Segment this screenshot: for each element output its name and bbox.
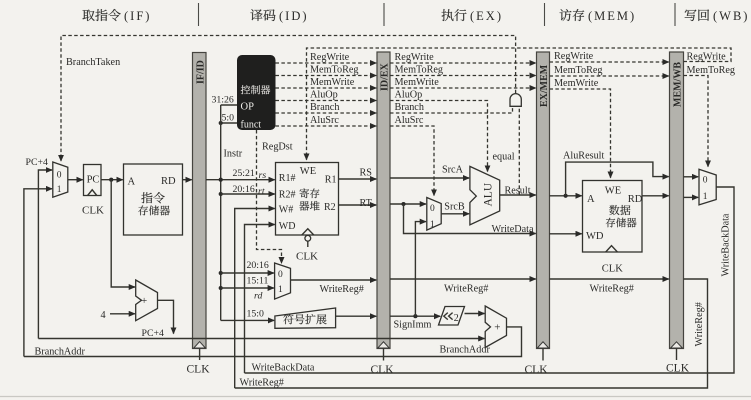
svg-text:0: 0 (57, 170, 62, 180)
svg-text:RS: RS (360, 168, 373, 179)
junction PC out (109, 178, 113, 182)
wire RT into SrcB mux 0 (390, 203, 426, 205)
register file (276, 163, 339, 263)
svg-text:RegWrite: RegWrite (687, 52, 727, 63)
stage header IF (82, 9, 151, 23)
svg-text:CLK: CLK (296, 251, 318, 263)
svg-text:(MEM): (MEM) (588, 9, 636, 23)
svg-text:1: 1 (703, 192, 708, 202)
wire RegWrite return to register file WE (307, 48, 732, 160)
svg-text:BranchAddr: BranchAddr (35, 347, 86, 358)
wire WriteReg# writeback return (235, 279, 708, 388)
wire WriteBackData return to WD (245, 225, 275, 374)
svg-text:WriteReg#: WriteReg# (240, 377, 284, 388)
svg-text:WE: WE (605, 185, 621, 196)
svg-text:MemToReg: MemToReg (310, 65, 359, 76)
junction RT/WriteData (401, 202, 405, 206)
svg-text:WD: WD (586, 231, 604, 242)
svg-text:IF/ID: IF/ID (196, 60, 207, 84)
wire AluResult bypass to MEM/WB (563, 150, 669, 196)
wire mux to PC (68, 179, 83, 181)
svg-text:31:26: 31:26 (212, 94, 234, 105)
svg-text:R2: R2 (324, 202, 336, 213)
wire MemWrite (ID stage) (276, 77, 377, 88)
wire RegWrite (ID stage) (276, 52, 377, 63)
wire Instr vertical tap (220, 105, 222, 320)
svg-text:W#: W# (279, 204, 293, 215)
wire SignImm into SrcB mux 1 (415, 222, 426, 317)
svg-text:(WB): (WB) (713, 9, 749, 23)
wire BranchAddr bottom line (24, 327, 522, 358)
wire RegWrite (EX stage) (390, 52, 536, 63)
wire 5:0 into control funct (221, 112, 237, 123)
wire AluResult into WB mux 0 (684, 176, 699, 178)
data memory (583, 181, 643, 275)
label 20:16 rt (233, 184, 265, 197)
svg-text:RegWrite: RegWrite (310, 52, 350, 63)
control unit (237, 55, 276, 131)
constant 4 into adder (101, 310, 135, 321)
wire 31:26 into control OP (212, 94, 238, 105)
svg-text:15:11: 15:11 (247, 276, 269, 287)
svg-text:A: A (587, 194, 595, 205)
wire BranchAddr into mux 1 (24, 189, 52, 357)
svg-text:BranchAddr: BranchAddr (440, 345, 491, 356)
svg-text:CLK: CLK (525, 364, 549, 376)
instruction memory (124, 164, 183, 235)
svg-text:AluSrc: AluSrc (310, 115, 339, 126)
svg-text:25:21: 25:21 (233, 168, 255, 179)
pipeline register MEM/WB (666, 52, 690, 375)
wire R1 RS to ID/EX (339, 168, 377, 180)
wire PC to instruction memory (101, 179, 123, 181)
wire SignImm to ID/EX (336, 315, 377, 317)
wire R2 RT to ID/EX (339, 198, 377, 209)
wire equal (493, 107, 520, 195)
svg-text:CLK: CLK (371, 364, 395, 376)
svg-text:WriteReg#: WriteReg# (444, 284, 488, 295)
wire 20:16 rt to R2# (221, 193, 275, 195)
mux WriteReg# select (275, 263, 291, 299)
svg-text:5:0: 5:0 (222, 112, 235, 123)
wire WriteReg# EX to EX/MEM (390, 279, 536, 295)
AND gate branch (510, 94, 521, 107)
wire MemWrite into data memory WE (550, 78, 611, 178)
op-amp ALU (470, 166, 500, 224)
pipeline register EX/MEM (525, 52, 551, 376)
page bottom rule (0, 396, 751, 398)
svg-text:SrcA: SrcA (442, 164, 464, 175)
wire AluResult to data memory A (550, 195, 582, 197)
svg-text:A: A (128, 176, 136, 187)
svg-text:2: 2 (454, 313, 459, 324)
wire 15:0 to sign extend (221, 309, 274, 321)
label 25:21 rs (233, 168, 267, 181)
svg-text:WriteReg#: WriteReg# (694, 302, 705, 346)
junction AluResult (564, 194, 568, 198)
wire AluOp (ID stage) (276, 90, 377, 101)
wire 15:11 rd to WriteReg mux 1 (221, 276, 274, 302)
shifter <<2 (439, 307, 465, 326)
junction SignImm tap (413, 314, 417, 318)
svg-text:1: 1 (278, 285, 283, 295)
svg-text:WriteBackData: WriteBackData (721, 213, 732, 276)
adder PC+4 (136, 280, 158, 321)
svg-text:+: + (494, 322, 500, 334)
sign extend unit (275, 308, 336, 328)
svg-text:AluSrc: AluSrc (395, 115, 424, 126)
svg-text:ALU: ALU (483, 182, 495, 206)
svg-text:equal: equal (493, 152, 515, 163)
svg-text:(EX): (EX) (470, 9, 503, 23)
svg-text:R1#: R1# (279, 173, 296, 184)
pipeline register ID/EX (371, 52, 395, 376)
wire shifted imm into branch adder (465, 313, 485, 315)
svg-text:WriteBackData: WriteBackData (252, 362, 315, 373)
svg-text:CLK: CLK (187, 364, 211, 376)
svg-text:WD: WD (279, 221, 296, 232)
svg-text:rt: rt (258, 186, 265, 197)
header divider 2 (383, 3, 385, 26)
svg-text:MEM/WB: MEM/WB (673, 62, 684, 107)
svg-text:rd: rd (254, 291, 262, 302)
wire MemToReg (MEM stage) (550, 65, 669, 76)
svg-text:Branch: Branch (310, 102, 339, 113)
wire PC+4 main line to branch adder (38, 338, 484, 340)
svg-text:funct: funct (241, 120, 262, 131)
svg-text:PC: PC (87, 175, 100, 186)
wire RegDst into WriteReg mux (257, 130, 293, 263)
wire MemWrite (EX stage) (390, 77, 536, 88)
wire PC to adder (111, 180, 135, 287)
wire read data into WB mux 1 (684, 196, 699, 198)
wire WriteData to data memory WD (550, 233, 582, 235)
svg-text:(ID): (ID) (279, 9, 309, 23)
junction instr/5:0 (219, 121, 223, 125)
header divider 3 (544, 3, 546, 26)
svg-text:+: + (141, 295, 147, 307)
svg-text:Result: Result (505, 185, 531, 196)
svg-text:0: 0 (278, 270, 283, 280)
wire SignImm to shifter (390, 316, 440, 330)
svg-text:CLK: CLK (602, 263, 623, 274)
svg-text:EX/MEM: EX/MEM (539, 64, 550, 107)
wire SrcA into ALU (390, 164, 469, 178)
svg-text:MemWrite: MemWrite (310, 77, 355, 88)
svg-text:Instr: Instr (224, 149, 243, 160)
svg-text:AluResult: AluResult (563, 150, 604, 161)
svg-text:AluOp: AluOp (395, 90, 423, 101)
wire adder out PC+4 (142, 300, 174, 339)
svg-text:MemToReg: MemToReg (554, 65, 603, 76)
svg-text:15:0: 15:0 (247, 309, 265, 320)
svg-text:R1: R1 (325, 174, 337, 185)
wire MemToReg into WB mux (684, 65, 736, 167)
wire WriteBackData (245, 187, 735, 373)
wire 20:16 to WriteReg mux 0 (221, 260, 274, 273)
mux PC source (53, 162, 68, 197)
svg-text:20:16: 20:16 (247, 260, 269, 271)
mux writeback select (699, 169, 716, 205)
svg-text:BranchTaken: BranchTaken (66, 57, 120, 68)
svg-text:RegDst: RegDst (262, 142, 293, 153)
svg-text:WE: WE (300, 166, 316, 177)
wire WriteReg# to ID/EX (291, 280, 377, 295)
header divider 4 (674, 3, 676, 26)
wire PC+4 into mux 0 (38, 170, 52, 339)
svg-text:PC+4: PC+4 (142, 328, 165, 339)
svg-text:R2#: R2# (279, 189, 296, 200)
svg-text:0: 0 (430, 204, 435, 214)
svg-text:MemWrite: MemWrite (554, 78, 599, 89)
stage header WB (685, 9, 750, 23)
svg-text:rs: rs (259, 170, 267, 181)
svg-text:WriteReg#: WriteReg# (590, 284, 634, 295)
svg-text:MemToReg: MemToReg (395, 65, 444, 76)
svg-text:(IF): (IF) (124, 9, 151, 23)
wire Branch into AND gate (390, 102, 513, 113)
wire MemToReg (EX stage) (390, 65, 536, 76)
svg-text:20:16: 20:16 (233, 184, 255, 195)
svg-text:1: 1 (57, 185, 62, 195)
wire AluSrc into SrcB mux (390, 115, 434, 196)
svg-text:RegWrite: RegWrite (395, 52, 435, 63)
svg-text:RD: RD (161, 176, 176, 187)
svg-text:MemWrite: MemWrite (395, 77, 440, 88)
svg-text:WriteData: WriteData (492, 224, 534, 235)
wire WriteReg# return to W# (235, 209, 275, 389)
svg-text:4: 4 (101, 310, 106, 321)
svg-text:SrcB: SrcB (444, 202, 465, 213)
wire RegWrite (MEM stage) (550, 51, 669, 62)
wire Instr to register file R1# (206, 149, 275, 180)
wire Result to EX/MEM (500, 185, 536, 196)
stage header ID (250, 9, 308, 23)
wire instruction to IF/ID (183, 179, 192, 181)
svg-text:AluOp: AluOp (310, 90, 338, 101)
wire SrcB into ALU (441, 202, 469, 214)
junction Instr taps (219, 178, 223, 182)
wire AluOp into ALU (390, 90, 488, 172)
svg-text:OP: OP (241, 102, 255, 113)
adder BranchAddr (485, 306, 506, 348)
wire MemToReg (ID stage) (276, 65, 377, 76)
svg-text:PC+4: PC+4 (26, 157, 49, 168)
svg-text:ID/EX: ID/EX (380, 62, 391, 91)
svg-text:RD: RD (628, 194, 643, 205)
header divider 1 (198, 3, 200, 26)
svg-text:1: 1 (430, 220, 435, 230)
svg-text:RegWrite: RegWrite (554, 51, 594, 62)
svg-text:SignImm: SignImm (394, 319, 432, 330)
svg-text:Branch: Branch (395, 102, 424, 113)
wire BranchTaken (61, 36, 516, 162)
svg-text:CLK: CLK (82, 205, 104, 217)
wire WriteData to EX/MEM (404, 204, 536, 235)
svg-text:0: 0 (703, 175, 708, 185)
svg-text:WriteReg#: WriteReg# (320, 284, 364, 295)
stage header EX (442, 9, 503, 23)
wire Branch (ID stage) (276, 102, 377, 113)
wire WriteReg# MEM to MEM/WB (550, 279, 669, 295)
register PC (82, 165, 104, 217)
svg-text:RT: RT (360, 198, 373, 209)
stage header MEM (560, 9, 637, 23)
svg-text:MemToReg: MemToReg (687, 65, 736, 76)
pipeline register IF/ID (187, 53, 211, 376)
wire AluSrc (ID stage) (276, 115, 377, 126)
wire RD read data to MEM/WB (642, 195, 669, 197)
mux SrcB select (427, 198, 441, 231)
